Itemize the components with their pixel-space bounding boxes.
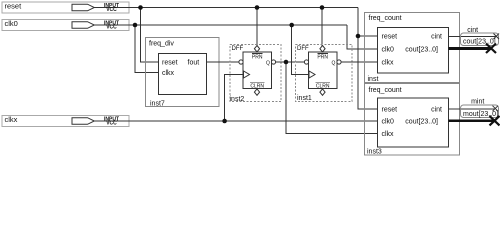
block freq_div inner box U inst7 xyxy=(159,54,207,95)
svg-text:cout[23..0]: cout[23..0] xyxy=(463,39,496,46)
svg-text:reset: reset xyxy=(162,60,178,67)
wire reset net vertical to inst1 PRN xyxy=(321,8,323,47)
PRN overbar inst1 xyxy=(317,53,328,55)
wire clk0 net horizontal xyxy=(94,24,347,26)
block freq_count inst outer box xyxy=(365,13,460,83)
wire reset net vertical to inst2 PRN xyxy=(256,8,258,47)
svg-text:cout[23..0]: cout[23..0] xyxy=(405,119,438,126)
wire q1 drop to inst3 clkx xyxy=(286,62,378,134)
svg-text:PRN: PRN xyxy=(317,55,328,61)
node q1 branch xyxy=(284,60,289,65)
input pin clk0 xyxy=(2,20,129,31)
svg-text:cint: cint xyxy=(467,27,478,34)
svg-text:CLRN: CLRN xyxy=(316,84,330,90)
svg-text:cint: cint xyxy=(431,107,442,114)
CLRN overbar inst2 xyxy=(250,82,264,84)
svg-text:clk0: clk0 xyxy=(382,119,395,126)
bus mout output xyxy=(449,119,494,122)
dff inst2 D bubble xyxy=(239,60,243,64)
output pin mout box xyxy=(461,105,499,118)
svg-text:clkx: clkx xyxy=(382,131,395,138)
wire clk0 vertical to freq_div clkx xyxy=(135,25,159,73)
svg-text:mint: mint xyxy=(471,99,484,106)
dff inst1 dashed box xyxy=(296,45,353,102)
block freq_div outer box xyxy=(146,38,220,107)
wire reset net horizontal xyxy=(94,7,358,9)
wire clk0 corner to inst clk0 xyxy=(347,25,378,49)
svg-text:mout[23..0]: mout[23..0] xyxy=(463,111,498,118)
svg-text:clkx: clkx xyxy=(382,60,395,67)
node reset/freq_div xyxy=(138,5,143,10)
svg-text:inst3: inst3 xyxy=(367,149,382,156)
X marker mout end xyxy=(490,116,500,126)
svg-text:cint: cint xyxy=(431,34,442,41)
node clkx/inst2 clock xyxy=(222,119,227,124)
wire reset net right vertical xyxy=(358,8,378,110)
input pin reset xyxy=(2,2,129,13)
wire cint output xyxy=(449,35,497,37)
svg-text:inst1: inst1 xyxy=(297,95,312,102)
bus cout output xyxy=(449,47,492,50)
node reset/inst xyxy=(356,34,361,39)
CLRN overbar inst1 xyxy=(316,82,330,84)
dff inst2 clock triangle xyxy=(244,71,250,78)
output pin cout box xyxy=(461,33,499,46)
dff inst2 PRN diamond xyxy=(254,46,259,52)
svg-text:inst: inst xyxy=(368,76,379,83)
wire inst2 Q to inst1 D xyxy=(276,61,305,63)
wire clk0 vertical to inst1 clock xyxy=(292,25,309,75)
svg-text:clkx: clkx xyxy=(5,115,18,124)
dff inst2 dashed box xyxy=(230,45,281,102)
text labels xyxy=(5,1,23,124)
svg-text:cout[23..0]: cout[23..0] xyxy=(405,47,438,54)
PRN overbar inst2 xyxy=(252,53,263,55)
block freq_count inst inner box xyxy=(378,28,449,74)
dff inst1 CLRN diamond xyxy=(320,89,325,95)
node reset/inst2 PRN xyxy=(255,5,260,10)
svg-text:reset: reset xyxy=(382,107,398,114)
svg-text:inst2: inst2 xyxy=(230,96,245,103)
input pin clkx xyxy=(2,116,129,127)
dff inst1 PRN diamond xyxy=(320,46,325,52)
wire fout to inst2 D xyxy=(207,61,240,63)
node reset/inst1 PRN xyxy=(320,5,325,10)
svg-text:freq_count: freq_count xyxy=(369,87,402,94)
svg-text:VCC: VCC xyxy=(106,25,117,31)
dff inst2 Q bubble xyxy=(271,60,275,64)
wire clkx vertical up to inst2 clock xyxy=(225,75,243,122)
svg-text:VCC: VCC xyxy=(106,121,117,127)
node clk0/freq_div xyxy=(133,23,138,28)
svg-text:inst7: inst7 xyxy=(150,101,165,108)
svg-text:PRN: PRN xyxy=(252,55,263,61)
svg-text:reset: reset xyxy=(382,34,398,41)
dff inst1 Q bubble xyxy=(337,60,341,64)
dff inst1 clock triangle xyxy=(309,71,315,78)
wire mint output xyxy=(449,108,496,110)
svg-text:fout: fout xyxy=(188,60,200,67)
svg-text:reset: reset xyxy=(5,1,23,10)
svg-text:VCC: VCC xyxy=(106,7,117,13)
svg-text:clk0: clk0 xyxy=(382,47,395,54)
svg-text:Q: Q xyxy=(266,61,270,67)
wire clkx net horizontal to inst3 clk0 xyxy=(94,120,377,122)
block freq_count inst3 inner box xyxy=(378,98,449,147)
x marker cint end xyxy=(494,34,500,40)
svg-text:DFF: DFF xyxy=(297,46,309,52)
junction dots xyxy=(133,5,361,123)
node clk0/inst1 clock xyxy=(289,23,294,28)
dff inst1 D bubble xyxy=(304,60,308,64)
svg-text:clkx: clkx xyxy=(162,70,175,77)
svg-text:freq_count: freq_count xyxy=(369,15,402,22)
svg-text:CLRN: CLRN xyxy=(250,84,264,90)
X marker cout end xyxy=(486,44,496,54)
wire reset branch to inst xyxy=(358,35,378,37)
svg-text:DFF: DFF xyxy=(232,46,244,52)
dff inst2 CLRN diamond xyxy=(254,89,259,95)
svg-text:clk0: clk0 xyxy=(5,19,18,28)
wire reset net vertical to freq_div xyxy=(141,8,159,63)
dff inst1 body xyxy=(309,52,338,89)
x marker mint end xyxy=(493,106,499,112)
svg-text:Q: Q xyxy=(332,61,336,67)
dff inst2 body xyxy=(243,52,272,89)
svg-text:freq_div: freq_div xyxy=(149,41,174,48)
block freq_count inst3 outer box xyxy=(365,84,460,156)
wire inst1 Q to inst clkx xyxy=(341,61,377,63)
